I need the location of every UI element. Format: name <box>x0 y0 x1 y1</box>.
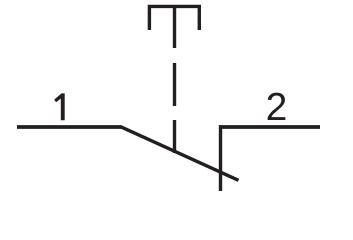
fixed contact post <box>219 125 222 191</box>
svg-text:2: 2 <box>266 86 288 129</box>
linkage dash <box>173 63 176 106</box>
pin label 1 <box>54 93 64 120</box>
terminal 1 wire <box>17 125 122 129</box>
movable contact blade <box>121 127 239 181</box>
terminal 2 wire <box>219 125 320 129</box>
contact drive stem <box>173 120 176 153</box>
actuator stem <box>173 6 176 48</box>
pushbutton actuator cap <box>149 6 199 30</box>
